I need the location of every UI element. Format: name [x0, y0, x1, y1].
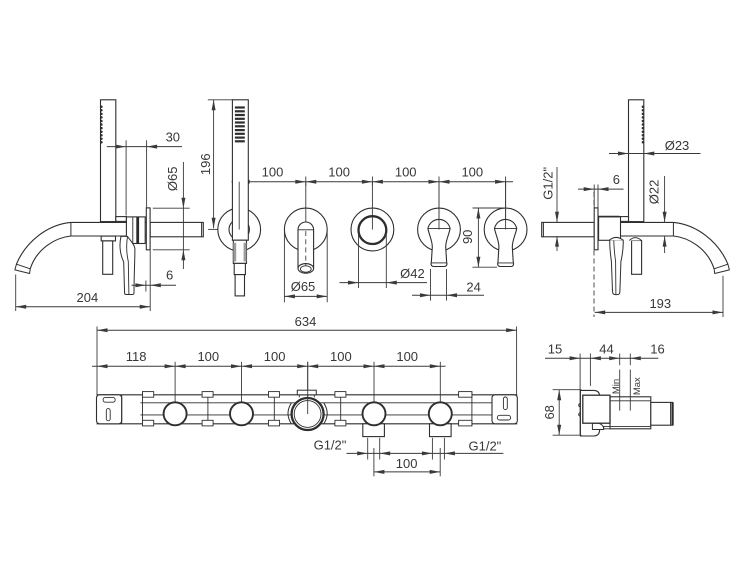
svg-text:Ø23: Ø23: [665, 138, 690, 153]
svg-text:Ø65: Ø65: [291, 279, 316, 294]
svg-text:6: 6: [613, 172, 620, 187]
svg-text:Max: Max: [632, 377, 643, 395]
right view: hand shower hose: [632, 241, 642, 275]
dim 6 right view: [578, 188, 624, 190]
right view: in-wall supply stub: [542, 222, 595, 236]
front view: handle 2 flange circle and lever knob: [484, 208, 527, 251]
svg-text:Ø65: Ø65: [165, 167, 180, 192]
left view: curved spout outlet: [16, 222, 71, 264]
svg-text:68: 68: [542, 405, 557, 419]
right view: shoulder arcs: [609, 237, 623, 240]
dim Ø22: [664, 176, 666, 222]
bar 100 dim: [373, 448, 375, 476]
front view: shower grip and hose: [233, 240, 246, 263]
left view: hand shower hose: [101, 236, 115, 241]
bar G1/2 sockets: [363, 424, 385, 437]
right view: curved spout outlet: [673, 222, 728, 264]
svg-text:100: 100: [328, 164, 350, 179]
right view: spout straight tube: [598, 221, 673, 223]
left view: spout straight tube: [71, 221, 146, 223]
svg-text:118: 118: [126, 349, 147, 364]
front view: hand shower holder flange circle: [218, 208, 261, 251]
bar dim row 118/100x4: [92, 365, 446, 367]
svg-text:Min: Min: [611, 379, 622, 394]
bar left bracket: [97, 395, 122, 424]
dim 90: [477, 208, 479, 267]
dim Ø65 front view: [283, 231, 285, 302]
svg-text:634: 634: [295, 314, 317, 329]
svg-text:15: 15: [548, 342, 562, 357]
front view: spout flange circle: [284, 208, 327, 251]
dim 204: [16, 306, 151, 308]
svg-text:Ø42: Ø42: [400, 266, 425, 281]
svg-text:100: 100: [262, 164, 284, 179]
side view: tube end: [651, 402, 673, 425]
svg-text:100: 100: [395, 164, 417, 179]
dim 196: [213, 100, 215, 229]
right view: shower holder arm: [599, 216, 619, 219]
right view: lever handle: [610, 240, 624, 295]
front view: center tick lines: [238, 182, 240, 230]
svg-text:6: 6: [166, 267, 173, 282]
svg-text:G1/2": G1/2": [468, 438, 501, 453]
side view rough-in body: bracket: [580, 390, 599, 436]
right view: wall plate: [594, 208, 598, 250]
left view: hand shower body: [101, 100, 116, 222]
svg-text:100: 100: [330, 349, 352, 364]
svg-text:16: 16: [650, 342, 664, 357]
bar middle boss: [297, 390, 316, 395]
dim 24: [430, 269, 432, 301]
left view: wall plate: [146, 208, 150, 250]
svg-text:G1/2": G1/2": [314, 438, 347, 453]
svg-text:90: 90: [460, 230, 475, 244]
right view: hand shower body: [629, 100, 644, 222]
svg-text:G1/2": G1/2": [540, 167, 555, 200]
svg-text:24: 24: [466, 279, 480, 294]
svg-text:100: 100: [396, 456, 418, 471]
left view: shower holder arm: [116, 217, 127, 222]
left view: in-wall tube: [150, 222, 203, 236]
front view: 100 spacing dim row: [232, 181, 514, 183]
front view: spout tube front: [298, 222, 314, 268]
svg-text:Ø22: Ø22: [646, 180, 661, 205]
dim Ø23: [609, 153, 701, 155]
dim Ø65 left view: [182, 162, 184, 269]
bar mounting clips: [142, 391, 144, 426]
svg-text:100: 100: [264, 349, 286, 364]
dim 30: [107, 146, 182, 148]
svg-text:30: 30: [166, 129, 180, 144]
side view Min/Max lines: [619, 354, 621, 366]
svg-text:100: 100: [197, 349, 219, 364]
bar hole ticks into circles: [307, 362, 309, 414]
svg-text:204: 204: [77, 290, 99, 305]
svg-text:100: 100: [396, 349, 418, 364]
left view: mixer body block: [126, 217, 145, 244]
svg-text:196: 196: [198, 153, 213, 175]
left view: spray nozzle dots: [100, 106, 103, 144]
svg-text:44: 44: [599, 342, 613, 357]
right view: spray nozzle dots: [642, 106, 645, 144]
bar middle threaded hole: [292, 398, 324, 430]
dim 193: [595, 311, 723, 313]
bar middle hole wings: [288, 403, 292, 424]
front view: hand shower body front: [232, 100, 248, 240]
side view: body square: [583, 395, 610, 423]
svg-text:193: 193: [649, 296, 671, 311]
left view: lever handle: [120, 236, 135, 294]
bar G1/2 dim: [367, 438, 369, 460]
front view: Ø42 flange circle: [351, 208, 394, 251]
side view dim row 15/44/16: [545, 357, 658, 359]
svg-text:100: 100: [461, 164, 483, 179]
dim 68: [558, 390, 560, 436]
rough-in bar body: [97, 394, 518, 396]
dim 634: [97, 329, 517, 331]
front view: handle 1 flange circle and lever knob: [418, 208, 461, 251]
dim 6 left view: [132, 284, 177, 286]
dim Ø42: [358, 234, 360, 289]
bar holes: [164, 402, 187, 425]
right view: mixer body block: [599, 217, 621, 240]
side view: sleeve: [610, 397, 651, 429]
side view: bottom foot arc: [592, 423, 603, 429]
bar right bracket: [492, 395, 517, 424]
dim G1/2 right view: [556, 167, 558, 222]
